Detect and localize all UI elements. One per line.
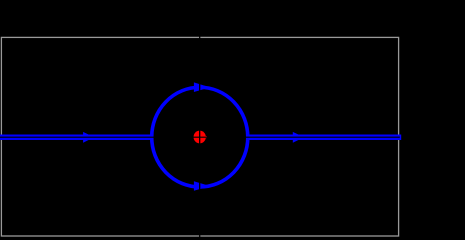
arrow on bottom of circle <box>194 181 206 191</box>
imaginary axis (black, over contour) <box>199 37 201 238</box>
arrow on left segment <box>83 132 94 143</box>
pole marker (red dot) <box>194 131 206 144</box>
arrow on right segment <box>293 132 304 143</box>
real axis (black, over contour) <box>0 136 400 138</box>
axes frame <box>1 37 398 236</box>
contour circle around pole <box>152 87 248 187</box>
wire: contour right segment <box>247 134 401 140</box>
wire: contour left segment <box>0 134 153 140</box>
arrow on top of circle <box>194 82 206 92</box>
red nub right of dot <box>205 136 207 138</box>
